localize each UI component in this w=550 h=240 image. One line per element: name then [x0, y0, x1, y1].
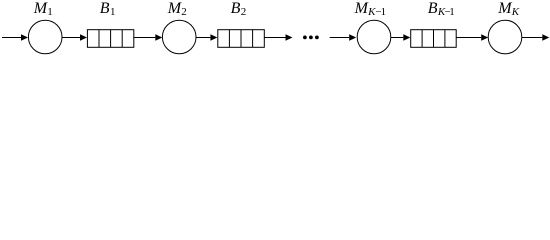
arrowhead into M1	[21, 34, 28, 41]
arrowhead toward dots	[286, 34, 293, 41]
buffer B2	[218, 30, 264, 48]
svg-text:B: B	[428, 0, 438, 17]
svg-text:B: B	[100, 0, 110, 17]
wire BK-1 to MK	[456, 37, 481, 39]
wire M1 to B1	[62, 37, 80, 39]
buffer B1	[87, 30, 133, 48]
svg-text:1: 1	[110, 6, 116, 18]
svg-text:B: B	[231, 0, 241, 17]
label B2	[231, 0, 247, 18]
buffer B1 dividers	[98, 30, 100, 48]
wire MK-1 to BK-1	[391, 37, 404, 39]
machine M1	[28, 20, 62, 54]
label M1	[33, 0, 53, 18]
wire output	[522, 37, 543, 39]
wire B2 to dots	[264, 37, 285, 39]
wire B1 to M2	[134, 37, 156, 39]
svg-text:1: 1	[47, 6, 53, 18]
background	[0, 0, 550, 57]
arrowhead into MK	[481, 34, 488, 41]
buffer BK-1 dividers	[421, 30, 423, 48]
wire M2 to B2	[196, 37, 211, 39]
machine M2	[162, 20, 196, 54]
svg-text:1: 1	[449, 6, 455, 18]
arrowhead into B2	[210, 34, 217, 41]
machine MK	[488, 20, 522, 54]
buffer BK-1	[411, 30, 457, 48]
arrowhead into M2	[155, 34, 162, 41]
svg-text:2: 2	[181, 6, 187, 18]
label B1	[100, 0, 116, 18]
label M2	[167, 0, 187, 18]
ellipsis dots	[303, 36, 307, 40]
machine MK-1	[357, 20, 391, 54]
buffer B2 dividers	[228, 30, 230, 48]
arrowhead into B1	[80, 34, 87, 41]
label BK-1	[428, 0, 455, 18]
wire dots to MK-1	[330, 37, 350, 39]
svg-text:2: 2	[241, 6, 247, 18]
svg-text:1: 1	[381, 6, 387, 18]
label MK-1	[354, 0, 387, 18]
arrowhead output	[542, 34, 549, 41]
svg-text:K: K	[511, 6, 520, 18]
arrowhead into MK-1	[349, 34, 356, 41]
wire input	[2, 37, 22, 39]
label MK	[497, 0, 520, 18]
arrowhead into BK-1	[403, 34, 410, 41]
